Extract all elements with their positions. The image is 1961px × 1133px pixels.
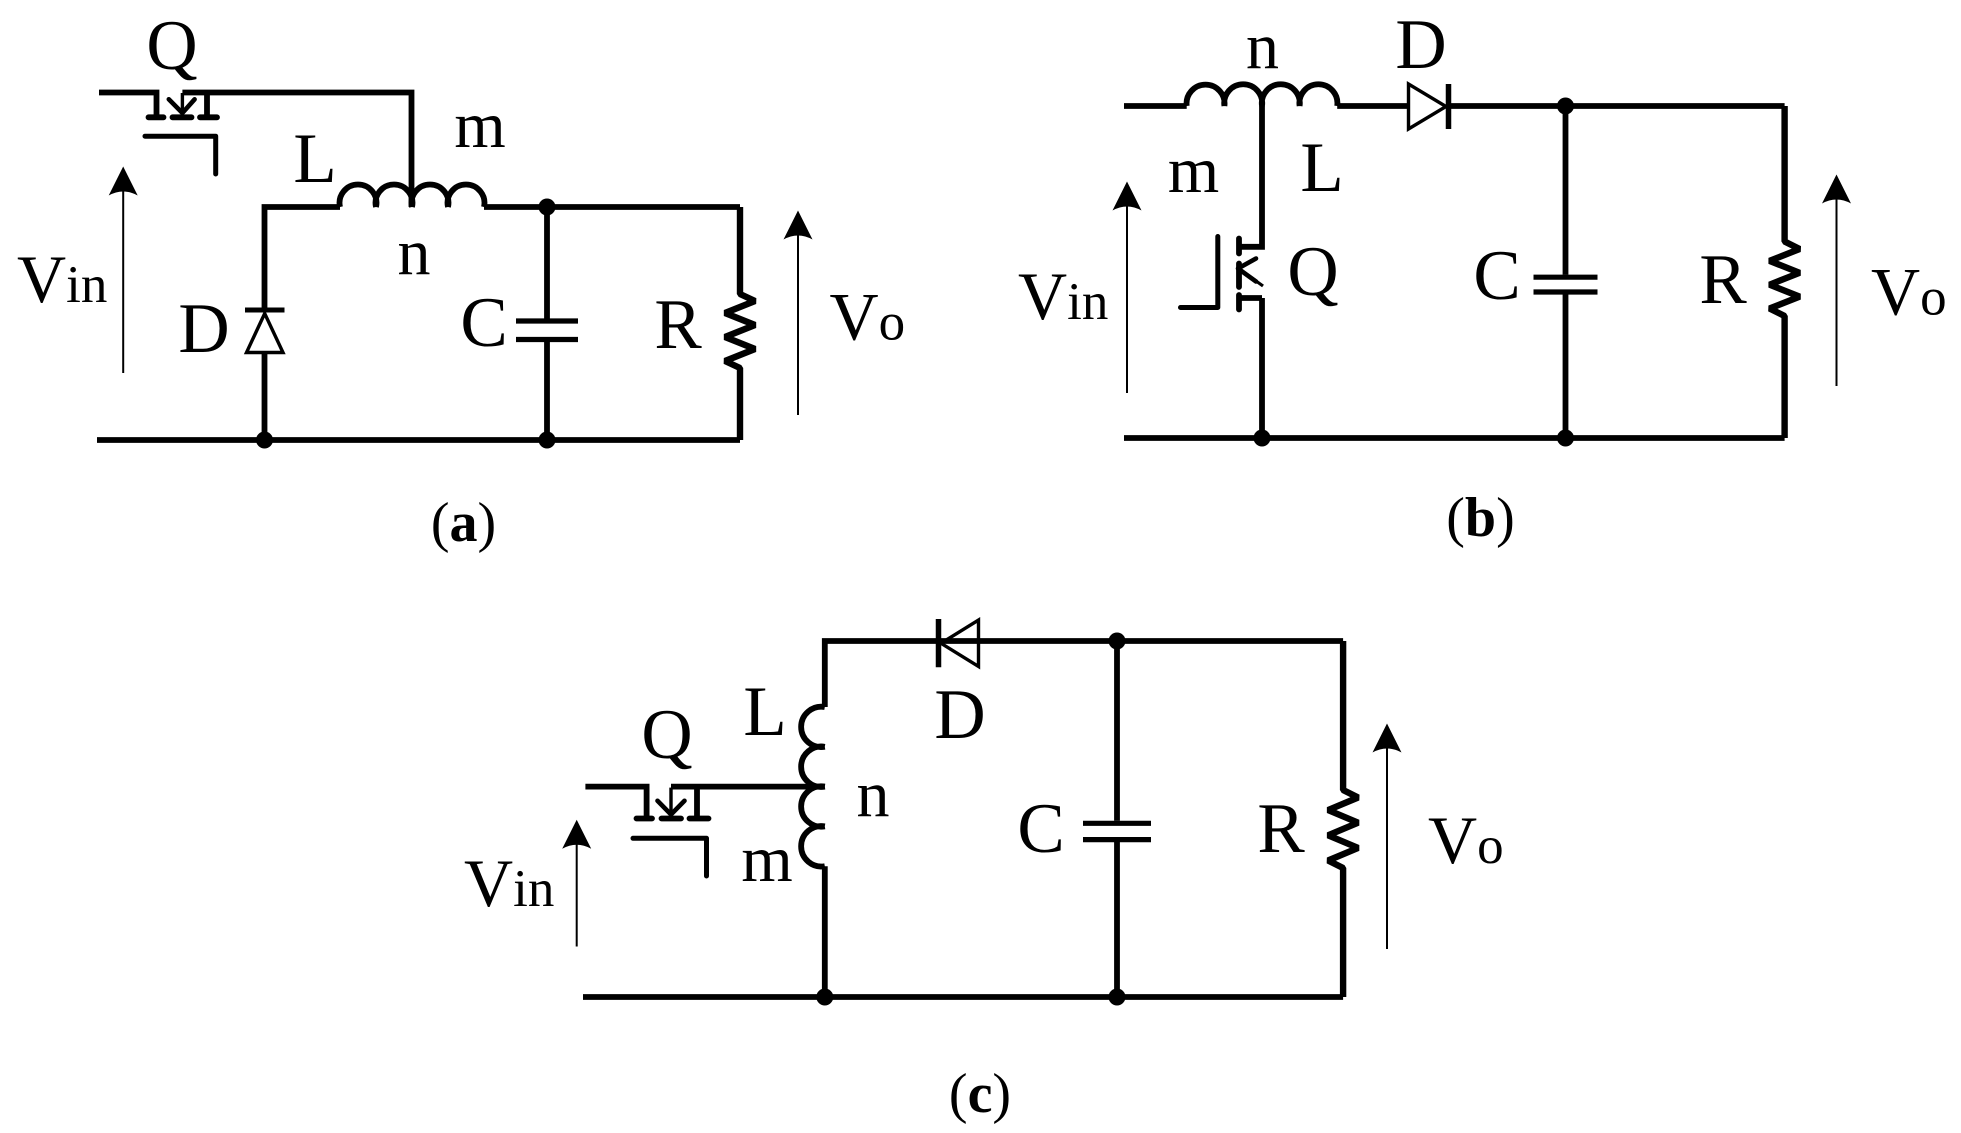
diode D (circuit a): cathode bar [245,308,285,313]
node: diode cathode / cap top junction (circuit b) [1557,98,1574,115]
transistor Q (circuit c): body arrow barbs [658,801,685,815]
wire: capacitor top lead (circuit b) [1563,106,1569,275]
transistor Q (circuit c): gate bar [633,838,707,876]
svg-text:L: L [743,673,786,751]
wire: inductor tap down to MOSFET drain (circuit b) [1240,106,1262,247]
Vin arrow (circuit c) [562,820,591,947]
node: capacitor on bottom rail (circuit c) [1109,989,1126,1006]
wire: inductor right lead to R branch (circuit a) [484,204,740,210]
transistor Q (circuit b): body arrow barbs [1238,259,1256,282]
svg-text:D: D [1395,6,1446,84]
node: capacitor on bottom rail (circuit b) [1557,430,1574,447]
inductor L (circuit c): 4 humps bulging left [801,707,825,867]
svg-text:m: m [741,823,792,896]
labels circuit (c) [464,673,1504,1125]
transistor Q (circuit b): channel bar segments [1236,239,1242,310]
wire: diode to output corner (circuit b) [1449,103,1785,109]
wire: input top lead (circuit b) [1124,103,1187,109]
svg-text:R: R [1257,790,1305,868]
svg-text:Q: Q [146,7,197,85]
svg-text:D: D [178,290,229,368]
Vo arrow (circuit c) [1373,724,1402,950]
transistor Q (circuit a): body arrow shaft [181,93,184,110]
node: inductor bottom on bottom rail (circuit c) [816,989,833,1006]
wire: capacitor bottom lead (circuit c) [1114,842,1120,997]
transistor Q (circuit a): gate bar [145,136,216,174]
wire: capacitor top lead (circuit c) [1114,641,1120,821]
wire: MOSFET drain to inductor tap (circuit c) [671,784,825,790]
wire: Q drain to inductor tap (circuit a) [182,93,411,208]
capacitor C (circuit b): plates [1534,277,1598,292]
wire: capacitor top lead (circuit a) [544,207,550,319]
capacitor C (circuit a): plates [516,321,578,340]
svg-text:n: n [1246,10,1279,83]
wire: MOSFET source to bottom rail (circuit b) [1259,298,1265,438]
diode D (circuit b): triangle pointing right [1409,84,1447,129]
svg-text:n: n [398,216,431,289]
Vo arrow (circuit a) [784,211,813,416]
diode D (circuit c): cathode bar [936,619,942,667]
svg-text:L: L [293,120,336,198]
labels circuit (a) [17,7,905,554]
inductor L (circuit a): 4 humps [340,185,485,208]
wire: top rail from inductor top over diode (circuit c) [825,641,1343,707]
wire: bottom rail (circuit a) [97,437,740,443]
svg-text:m: m [454,89,505,162]
transistor Q (circuit a): body arrow barbs [169,99,195,113]
Vin arrow (circuit b) [1113,182,1142,394]
wire: inductor left lead down to diode (circuit a) [265,207,341,308]
svg-text:L: L [1300,129,1343,207]
inductor L (circuit b): 4 humps [1187,84,1338,106]
wire: inductor right lead to diode anode (circuit b) [1337,103,1408,109]
svg-text:n: n [857,758,890,831]
Vo arrow (circuit b) [1822,175,1851,387]
wire: diode anode to bottom rail (circuit a) [262,353,268,441]
resistor R (circuit c): zigzag [1328,641,1358,997]
svg-text:C: C [1017,790,1064,868]
transistor Q (circuit b): body arrow shaft [1240,270,1263,287]
wire: inductor bottom lead to bottom rail (circuit c) [822,866,828,997]
svg-text:m: m [1168,134,1219,207]
diode D (circuit c): triangle pointing left [941,620,979,667]
svg-text:D: D [934,676,985,754]
resistor R (circuit a): zigzag [725,207,755,440]
svg-text:C: C [460,284,507,362]
transistor Q (circuit c): drain stub [694,787,700,816]
svg-text:R: R [654,286,702,364]
wire: capacitor bottom lead (circuit a) [544,342,550,440]
resistor R (circuit b): zigzag [1770,106,1800,438]
wire: bottom rail (circuit b) [1124,435,1785,441]
svg-text:C: C [1473,237,1520,315]
labels circuit (b) [1018,6,1947,549]
transistor Q (circuit a): drain stub [204,93,210,115]
node: diode anode on bottom rail (circuit a) [256,432,273,449]
transistor Q (circuit b): source contact [1240,295,1262,301]
Vin arrow (circuit a) [109,167,138,374]
svg-text:(a): (a) [431,492,496,554]
svg-text:R: R [1699,241,1747,319]
svg-text:Q: Q [641,696,692,774]
transistor Q (circuit c): MOSFET source lead + stub [585,787,646,816]
node: diode cathode / cap top junction (circuit c) [1109,633,1126,650]
capacitor C (circuit c): plates [1083,823,1151,839]
node: MOSFET source on bottom rail (circuit b) [1254,430,1271,447]
node: inductor/cap/R top junction (circuit a) [539,199,556,216]
transistor Q (circuit a): channel bar segments [149,114,218,120]
transistor Q (circuit a): MOSFET source lead + stub [99,93,157,115]
wire: bottom rail (circuit c) [583,994,1343,1000]
svg-text:(b): (b) [1446,487,1514,549]
diode D (circuit a): triangle pointing up [247,314,284,353]
node: capacitor on bottom rail (circuit a) [539,432,556,449]
svg-text:(c): (c) [949,1063,1011,1125]
diode D (circuit b): cathode bar [1446,84,1452,129]
transistor Q (circuit c): channel bar segments [637,816,709,822]
svg-text:Q: Q [1287,233,1338,311]
transistor Q (circuit b): gate bar [1181,237,1218,308]
wire: capacitor bottom lead (circuit b) [1563,295,1569,439]
transistor Q (circuit c): body arrow shaft [669,788,672,812]
